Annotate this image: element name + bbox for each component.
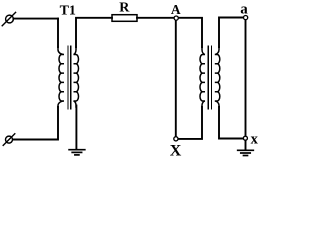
svg-text:x: x: [251, 132, 259, 148]
wire terminal a down to terminal x: [245, 20, 247, 136]
node X: [174, 137, 178, 141]
terminal phi top-left: [2, 12, 15, 25]
transformer T2 core: [208, 46, 211, 109]
transformer T1 secondary winding: [74, 47, 79, 107]
transformer T1 core: [68, 46, 71, 109]
wire node A to T2 primary: [178, 18, 202, 47]
svg-text:T1: T1: [60, 4, 76, 19]
wire T2 secondary top lead to terminal a: [219, 18, 243, 48]
node A: [174, 16, 178, 20]
wire T1 primary top lead: [57, 19, 59, 47]
transformer T2 primary winding: [200, 47, 205, 107]
wire T1 primary bottom lead: [13, 107, 58, 140]
terminal a: [244, 16, 248, 20]
wire terminal x to ground: [245, 141, 247, 150]
wire resistor to node A: [137, 17, 174, 19]
svg-text:X: X: [170, 142, 182, 159]
svg-text:A: A: [171, 2, 181, 17]
ground left: [69, 150, 85, 155]
ground right: [238, 150, 254, 155]
wire node A down to node X: [175, 21, 177, 136]
svg-text:R: R: [119, 1, 130, 16]
transformer T2 secondary winding: [215, 47, 220, 107]
transformer T1 primary winding: [58, 47, 64, 107]
terminal x: [243, 136, 247, 140]
wire T2 secondary bottom lead to terminal x: [219, 107, 243, 139]
svg-text:a: a: [240, 2, 248, 18]
wire top-left rail to T1 primary: [13, 18, 58, 20]
wire T1 secondary top lead to resistor: [76, 18, 112, 47]
wire T2 primary bottom lead to node X: [179, 107, 202, 139]
resistor R: [112, 15, 137, 22]
terminal phi bottom-left: [3, 134, 15, 146]
wire T1 secondary bottom lead to ground: [75, 106, 77, 150]
